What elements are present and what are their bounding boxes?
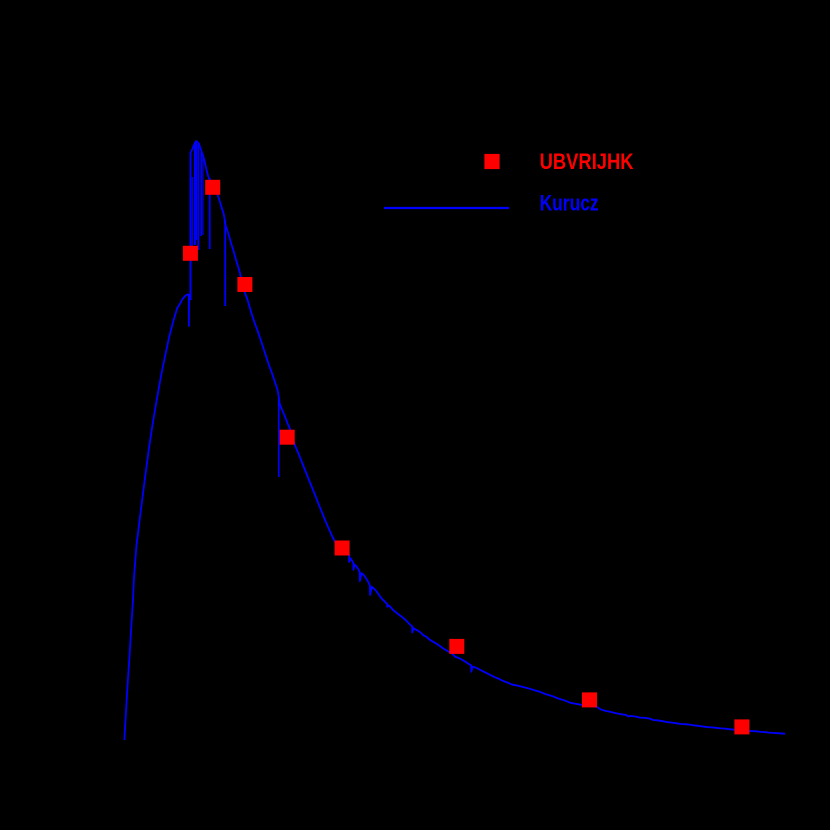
data point K [734, 719, 749, 734]
legend marker: red square [484, 154, 499, 169]
absorption line spike [190, 152, 192, 300]
data point B [205, 180, 220, 195]
main spectrum curve [124, 141, 785, 740]
svg-text:Kurucz: Kurucz [540, 190, 599, 215]
data point J [449, 639, 464, 654]
svg-text:UBVRIJHK: UBVRIJHK [540, 149, 634, 174]
data point I [335, 541, 350, 556]
legend line sample [384, 207, 509, 209]
red square data points (UBVRIJHK photometry) [183, 180, 750, 735]
data point R [280, 430, 295, 445]
data point U [183, 246, 198, 261]
data point H [582, 692, 597, 707]
data point V [237, 277, 252, 292]
